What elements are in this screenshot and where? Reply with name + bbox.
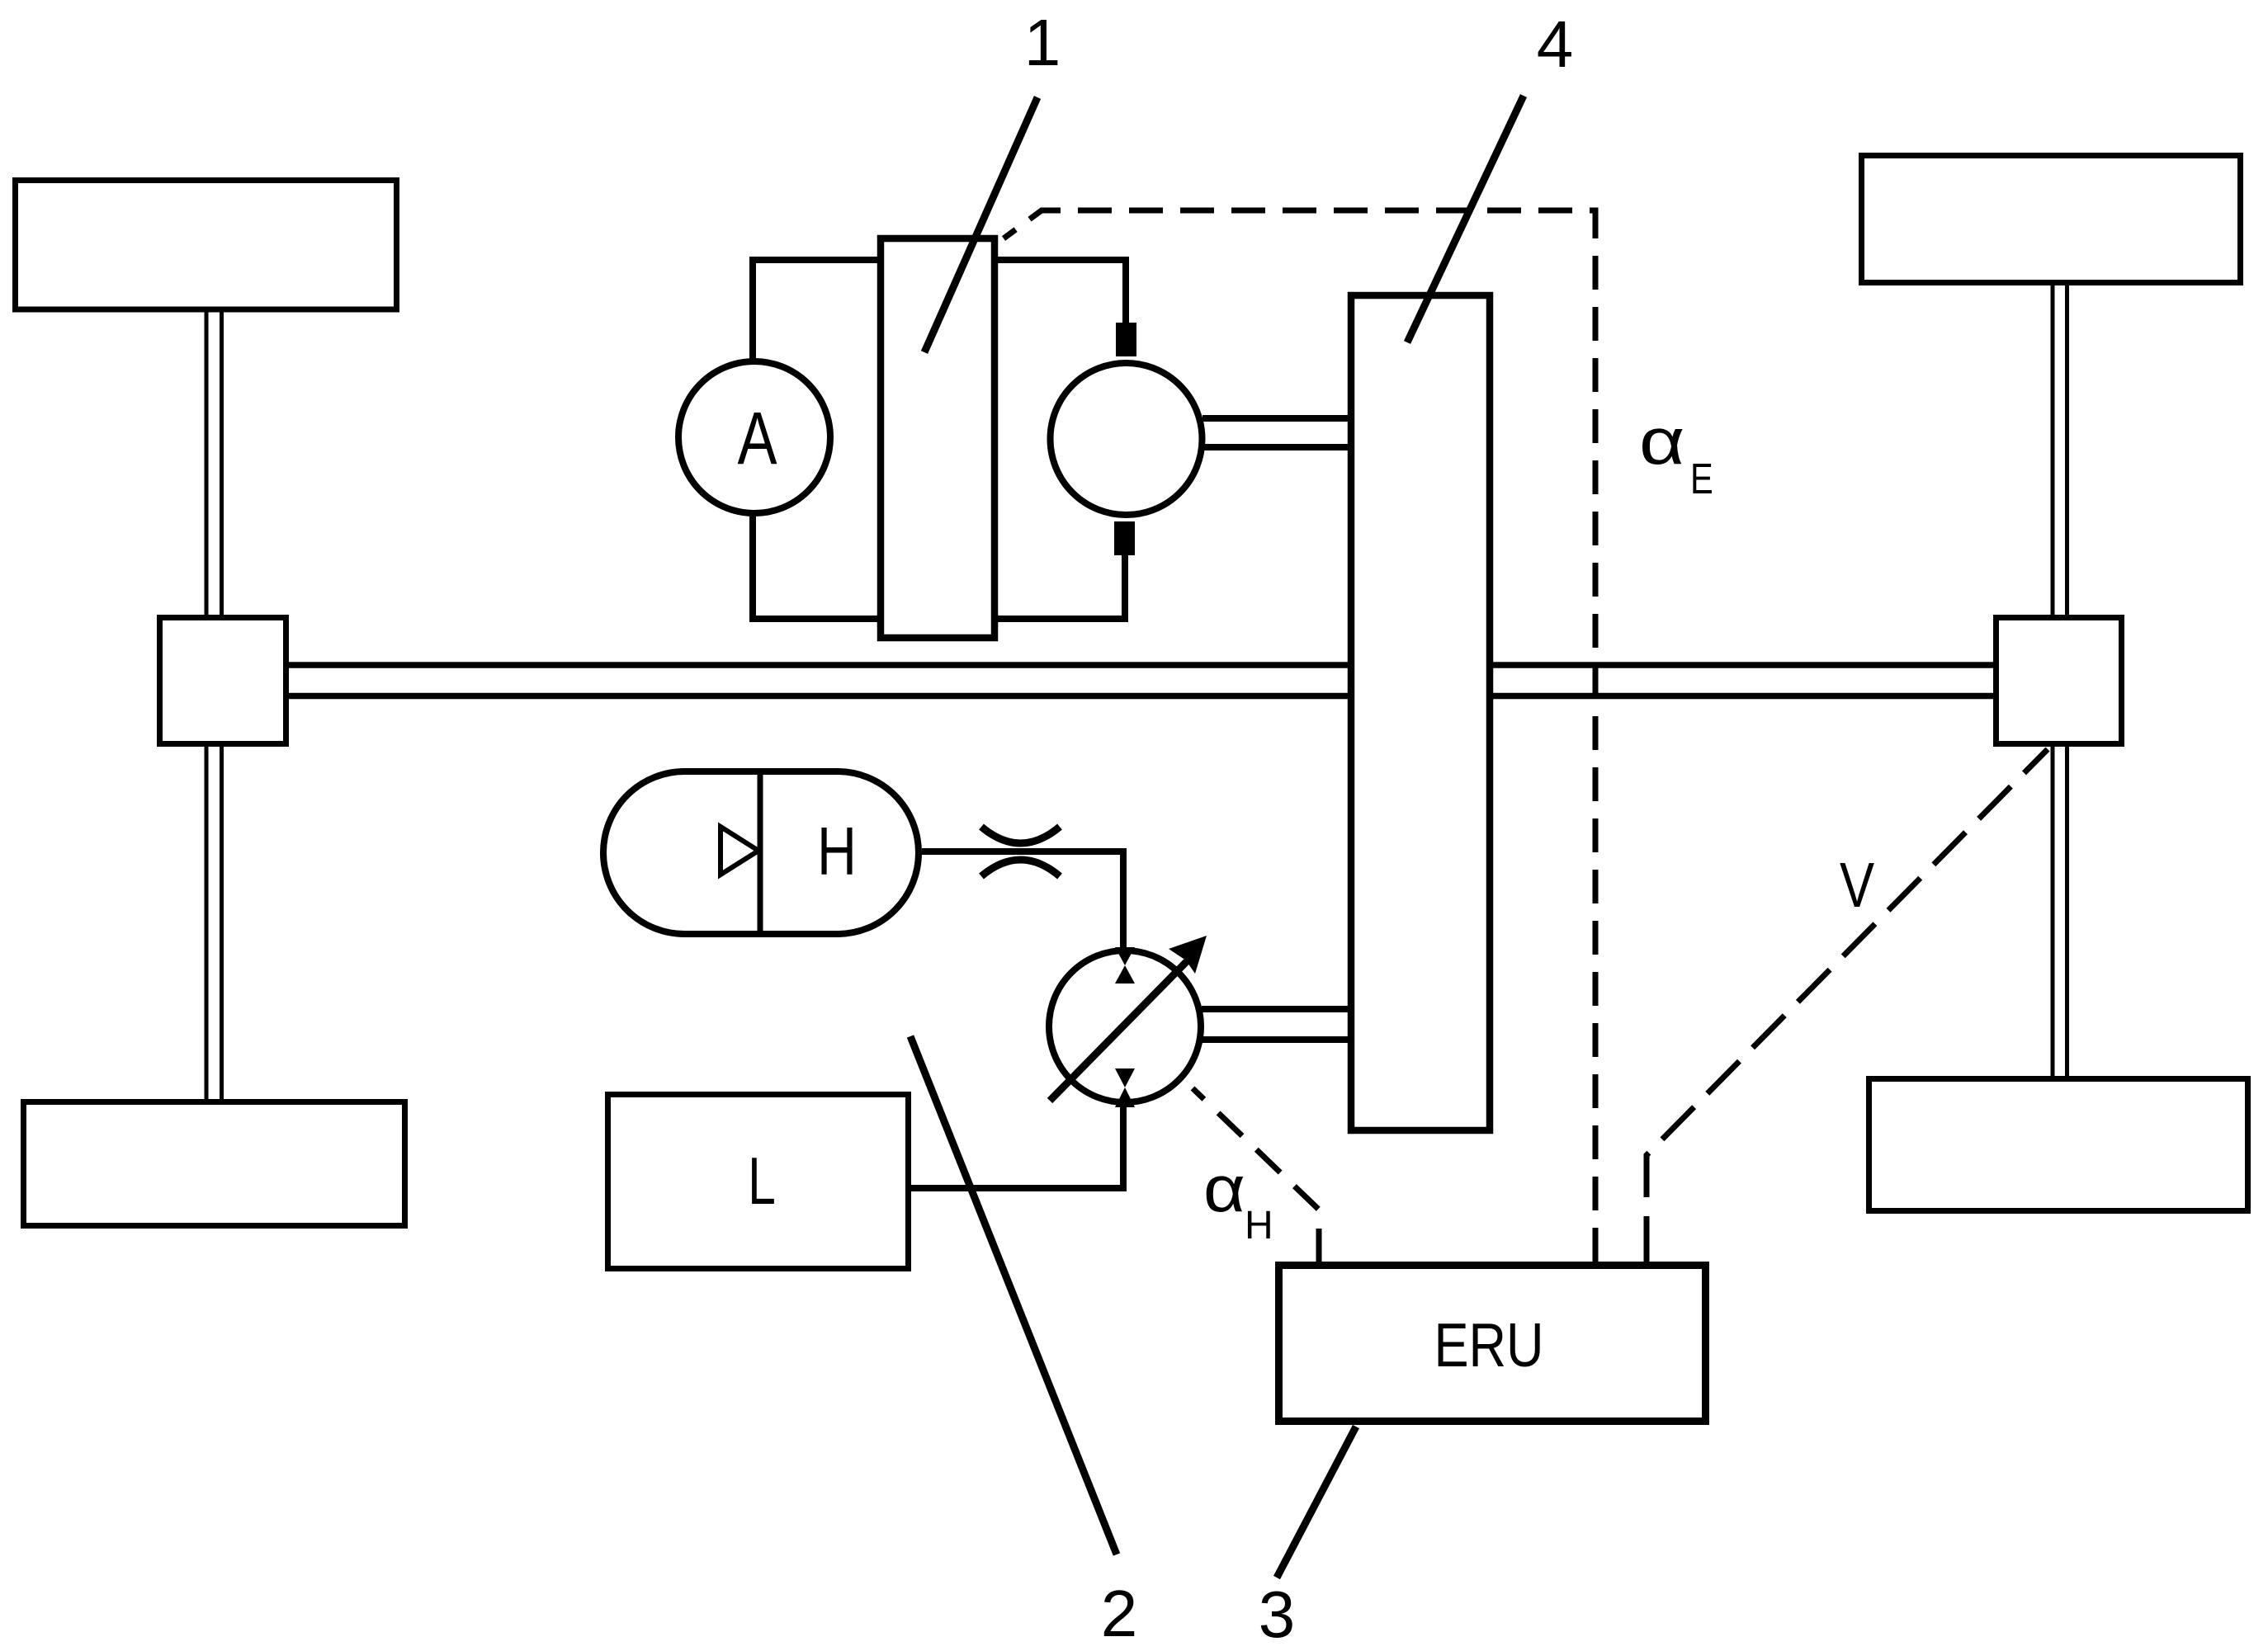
- svg-text:4: 4: [1537, 7, 1574, 81]
- dashed signal alpha_H (pump to ERU): [1193, 1088, 1319, 1262]
- ammeter A: [678, 361, 830, 513]
- battery 1 (box): [881, 238, 995, 638]
- electric machine (motor/generator) circle: [1051, 363, 1203, 515]
- label alpha_E: [1639, 404, 1713, 502]
- variable displacement arrow: [1050, 936, 1207, 1101]
- orifice (restrictor): [981, 827, 1060, 876]
- brush contact top: [1116, 323, 1136, 356]
- leader line 2: [910, 1036, 1117, 1554]
- svg-text:3: 3: [1259, 1578, 1296, 1651]
- svg-text:2: 2: [1101, 1577, 1138, 1650]
- svg-text:α: α: [1639, 404, 1685, 479]
- svg-text:L: L: [748, 1144, 776, 1219]
- differential right: [1996, 618, 2122, 744]
- svg-text:ERU: ERU: [1434, 1310, 1543, 1380]
- right axle upper segment: [2053, 285, 2067, 616]
- leader line 1: [924, 97, 1037, 352]
- differential left: [160, 618, 286, 744]
- dashed signal V (rear-right axle to ERU): [1647, 749, 2048, 1262]
- brush contact bottom: [1114, 521, 1135, 555]
- wheel front-left: [16, 181, 397, 310]
- reservoir L: [608, 1095, 909, 1269]
- left axle upper segment: [206, 309, 222, 616]
- svg-text:H: H: [1245, 1204, 1273, 1248]
- dashed signal alpha_E (battery to ERU): [1004, 210, 1595, 1262]
- wire accumulator to pump: [922, 851, 1123, 950]
- gas side triangle in accumulator: [721, 827, 758, 875]
- valve bowtie bottom: [1115, 1068, 1135, 1107]
- driveshaft (propeller shaft): [289, 665, 1993, 696]
- label alpha_H: [1203, 1152, 1273, 1248]
- label V: [1840, 849, 1874, 920]
- wheel rear-left: [24, 1102, 405, 1226]
- left axle lower segment: [206, 745, 222, 1101]
- accumulator H (stadium): [603, 771, 919, 934]
- label 1: [1024, 6, 1061, 79]
- wire pump to reservoir L: [911, 1103, 1123, 1188]
- gearbox 4: [1351, 295, 1490, 1130]
- wheel rear-right: [1869, 1079, 2248, 1211]
- leader line 3: [1277, 1427, 1356, 1578]
- label 3: [1259, 1578, 1296, 1651]
- pump shaft to gearbox: [1202, 1009, 1350, 1040]
- valve bowtie top: [1115, 947, 1135, 984]
- right axle lower segment: [2053, 745, 2067, 1078]
- label 4: [1537, 7, 1574, 81]
- ERU control unit: [1279, 1266, 1706, 1422]
- motor shaft to gearbox: [1203, 418, 1350, 447]
- svg-text:1: 1: [1024, 6, 1061, 79]
- wire battery right loop: [998, 260, 1126, 619]
- wheel front-right: [1862, 156, 2241, 283]
- svg-text:H: H: [817, 813, 857, 889]
- svg-text:α: α: [1203, 1152, 1245, 1225]
- leader line 4: [1407, 96, 1524, 342]
- wire battery left loop: [753, 260, 877, 619]
- svg-text:E: E: [1690, 455, 1713, 503]
- label 2: [1101, 1577, 1138, 1650]
- hydraulic pump/motor 2 (circle): [1049, 951, 1201, 1102]
- svg-text:A: A: [737, 397, 777, 479]
- svg-text:V: V: [1840, 849, 1874, 920]
